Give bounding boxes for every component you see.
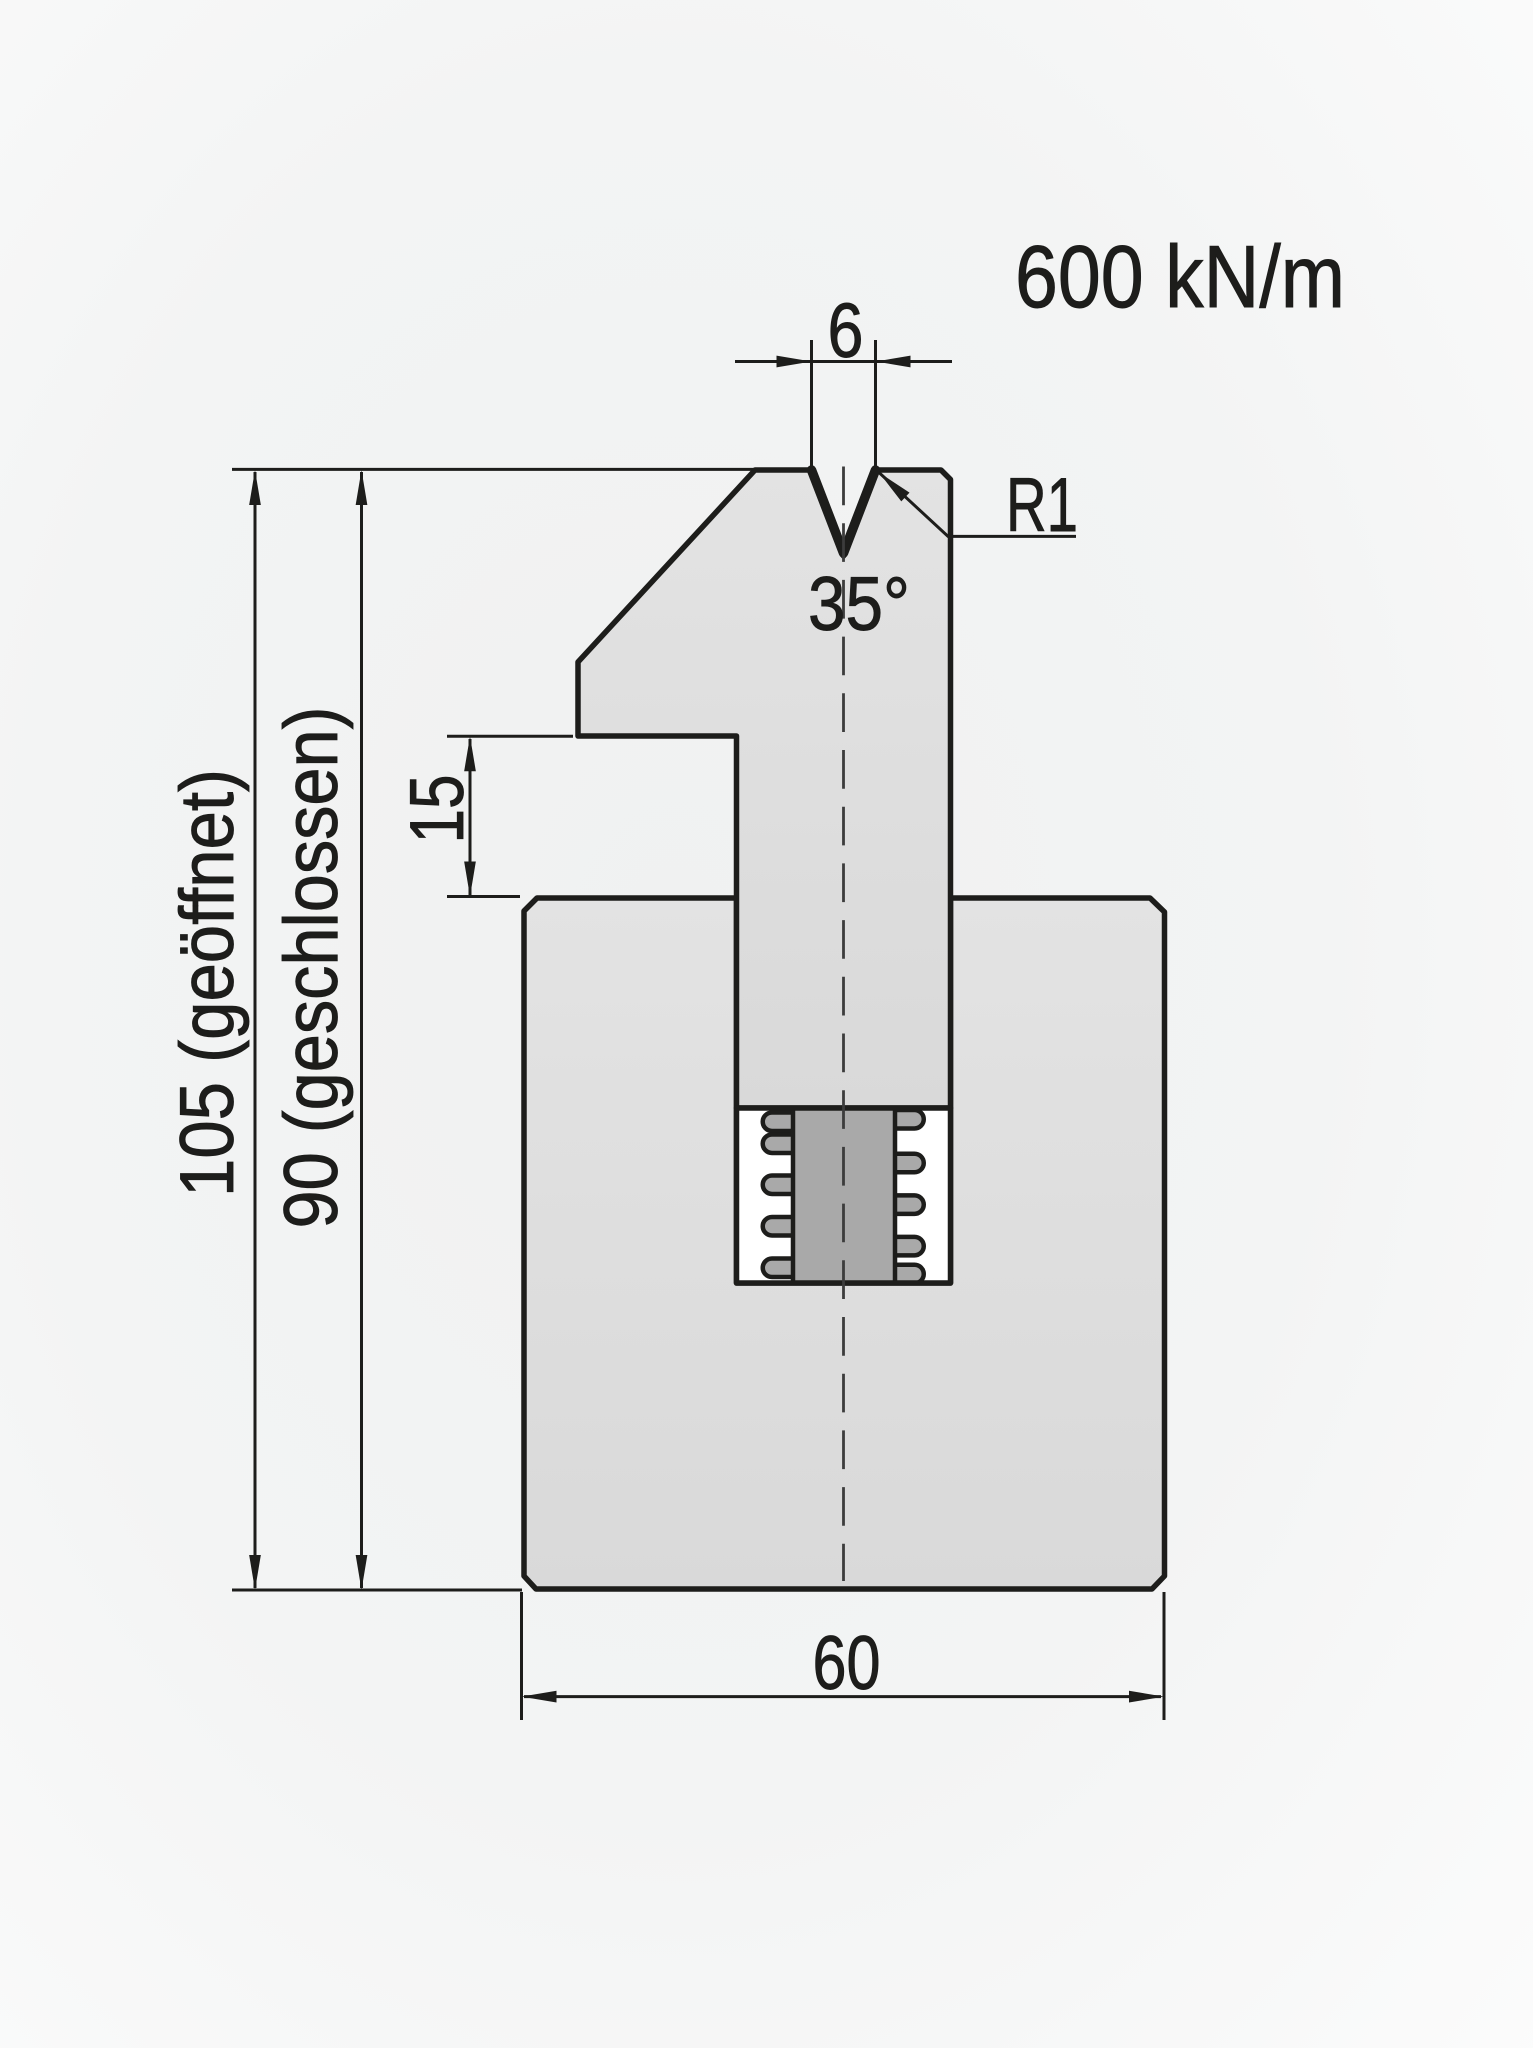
- arrowhead 105 bottom: [249, 1555, 261, 1590]
- arrowhead R1: [879, 473, 910, 502]
- svg-text:60: 60: [813, 1621, 881, 1706]
- svg-text:6: 6: [828, 288, 864, 374]
- dimension line 105: [254, 472, 257, 1588]
- extension line 60 left: [520, 1592, 523, 1720]
- R1 leader line: [879, 473, 1076, 537]
- extension line 15 top: [447, 735, 573, 738]
- dimension line 15: [469, 739, 472, 895]
- extension line 15 bottom: [447, 895, 520, 898]
- arrowhead 90 top: [356, 470, 368, 505]
- svg-text:105 (geöffnet): 105 (geöffnet): [165, 769, 250, 1197]
- arrowhead 60 left: [522, 1691, 557, 1703]
- arrowhead 6 left: [777, 356, 812, 368]
- centerline: [842, 467, 845, 1582]
- svg-text:90 (geschlossen): 90 (geschlossen): [269, 707, 354, 1229]
- arrowhead 15 top: [464, 736, 476, 771]
- dimension line 90: [360, 472, 363, 1588]
- arrowhead 15 bottom: [464, 862, 476, 897]
- dimension line 6: [735, 360, 952, 363]
- svg-text:600 kN/m: 600 kN/m: [1015, 227, 1345, 326]
- dimension line 60: [524, 1695, 1161, 1698]
- V-groove bold flanks: [812, 470, 876, 553]
- spring left coil loops: [763, 1112, 800, 1277]
- arrowhead 90 bottom: [356, 1555, 368, 1590]
- arrowhead 60 right: [1129, 1691, 1164, 1703]
- die body lower block: [524, 898, 1165, 1589]
- arrowhead 105 top: [249, 470, 261, 505]
- svg-text:15: 15: [395, 775, 480, 844]
- extension line 60 right: [1163, 1592, 1166, 1720]
- extension line bottom (105/90): [232, 1589, 522, 1592]
- spring cavity outline: [737, 1108, 951, 1283]
- ejector pin rod: [793, 1108, 895, 1283]
- svg-text:R1: R1: [1006, 463, 1078, 548]
- spring right coil loops: [888, 1110, 924, 1283]
- spring cavity white interior: [737, 1108, 951, 1283]
- die insert upper tool with V-groove: [578, 470, 951, 1108]
- extension line top (105/90): [232, 468, 754, 471]
- svg-text:35°: 35°: [808, 562, 910, 647]
- arrowhead 6 right: [876, 356, 911, 368]
- extension line 6 left: [810, 340, 813, 466]
- extension line 6 right: [874, 340, 877, 466]
